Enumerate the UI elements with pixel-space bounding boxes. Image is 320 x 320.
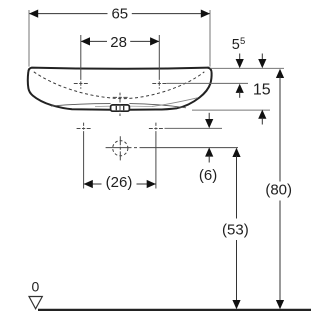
svg-text:5: 5 (240, 36, 245, 47)
svg-text:28: 28 (110, 34, 127, 51)
svg-text:5: 5 (232, 37, 240, 53)
svg-text:65: 65 (111, 5, 128, 22)
svg-text:(6): (6) (199, 167, 217, 184)
svg-text:(26): (26) (106, 174, 133, 191)
svg-text:(53): (53) (222, 221, 249, 238)
svg-text:15: 15 (253, 82, 271, 99)
svg-text:(80): (80) (265, 182, 292, 199)
svg-text:0: 0 (32, 278, 40, 294)
